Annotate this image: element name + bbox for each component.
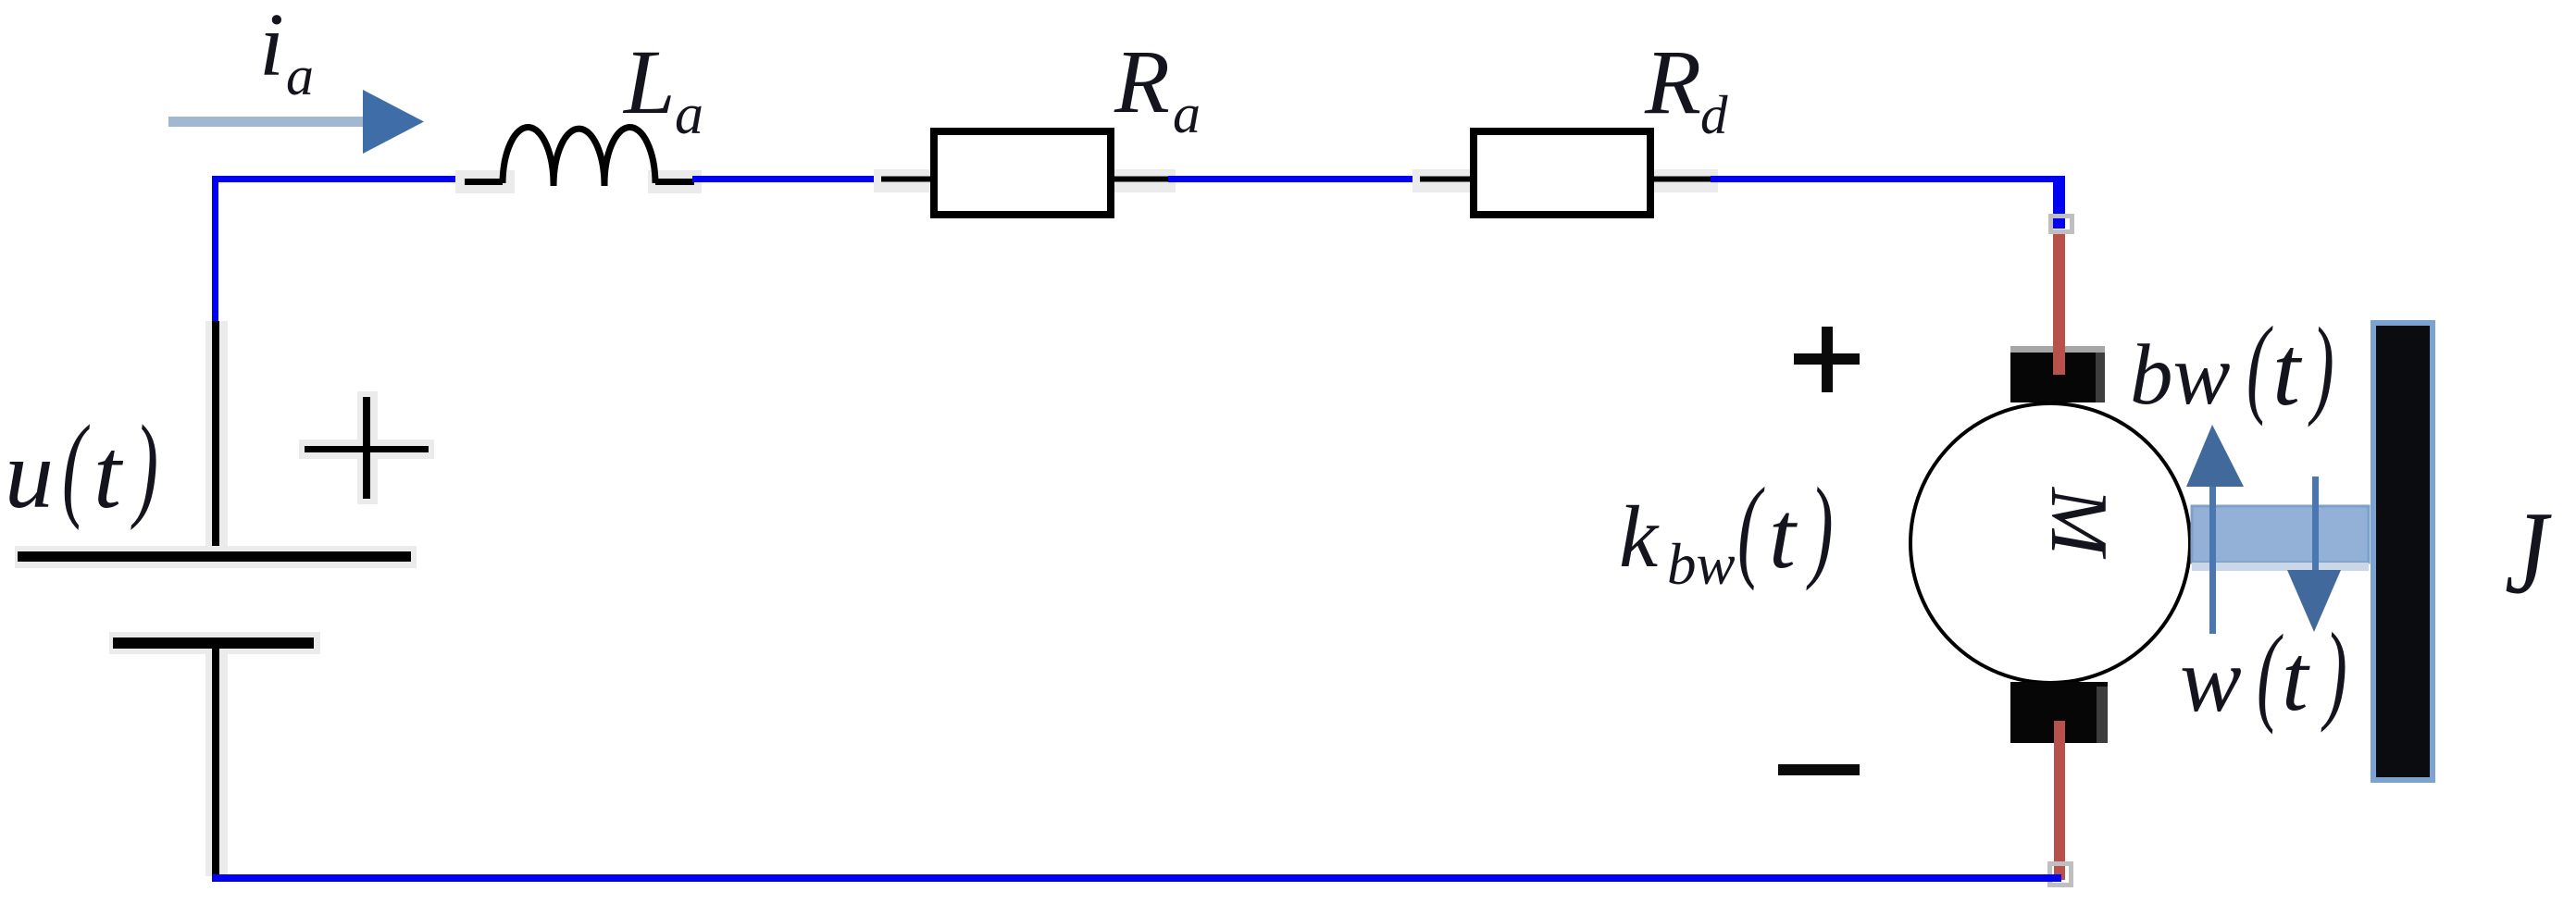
svg-text:): ) xyxy=(2308,304,2334,427)
svg-text:a: a xyxy=(675,83,703,146)
battery plus sign xyxy=(299,391,434,504)
svg-text:t: t xyxy=(1769,482,1798,588)
svg-text:i: i xyxy=(259,0,284,94)
wire segment C xyxy=(1168,176,1422,182)
svg-text:R: R xyxy=(1644,31,1701,133)
svg-text:M: M xyxy=(2034,486,2123,560)
svg-text:(: ( xyxy=(2246,303,2273,427)
wire red bottom xyxy=(2054,721,2065,880)
svg-text:t: t xyxy=(2272,316,2303,427)
wire bottom xyxy=(212,874,2061,882)
svg-text:k: k xyxy=(1619,488,1660,586)
wire left vertical xyxy=(212,176,218,321)
arrow bw up xyxy=(2186,425,2244,634)
label u(t) xyxy=(5,402,158,530)
resistor Ra xyxy=(874,131,1176,215)
svg-text:(: ( xyxy=(2257,612,2284,735)
label plus motor xyxy=(1794,327,1860,392)
svg-text:w: w xyxy=(2180,628,2242,731)
svg-text:t: t xyxy=(93,419,124,529)
svg-text:R: R xyxy=(1114,32,1170,132)
svg-text:L: L xyxy=(622,31,676,133)
battery plate long xyxy=(15,546,417,568)
wire right vertical xyxy=(2053,176,2065,229)
node connector bottom xyxy=(2050,864,2072,885)
svg-text:a: a xyxy=(286,45,314,106)
current arrow ia xyxy=(168,90,424,154)
load inertia J bar xyxy=(2373,323,2433,780)
motor terminal top xyxy=(2010,346,2105,402)
label minus motor xyxy=(1778,764,1860,775)
svg-text:bw: bw xyxy=(1667,532,1736,597)
label i_a xyxy=(259,0,314,106)
motor body M xyxy=(1910,403,2190,683)
resistor Rd xyxy=(1412,131,1718,215)
label w(t) xyxy=(2180,610,2347,735)
svg-text:d: d xyxy=(1700,84,1728,145)
svg-text:(: ( xyxy=(1737,465,1765,592)
label bw(t) xyxy=(2130,303,2334,427)
svg-text:(: ( xyxy=(62,402,91,530)
label k_bw(t) xyxy=(1619,465,1834,597)
svg-text:t: t xyxy=(2282,625,2310,731)
svg-text:bw: bw xyxy=(2130,328,2231,423)
svg-text:): ) xyxy=(131,402,158,530)
label L_a xyxy=(622,31,703,146)
shaft xyxy=(2192,506,2369,571)
arrow w down xyxy=(2287,477,2341,632)
inductor La xyxy=(455,128,702,193)
wire segment D xyxy=(1711,176,2065,182)
label R_a xyxy=(1114,32,1201,144)
battery lead lower xyxy=(205,649,228,877)
battery plate short xyxy=(109,632,320,654)
label R_d xyxy=(1644,31,1728,145)
svg-text:u: u xyxy=(5,420,54,528)
battery lead upper xyxy=(205,321,228,555)
svg-text:): ) xyxy=(2321,610,2347,733)
node connector top xyxy=(2051,217,2072,232)
motor terminal bottom xyxy=(2010,682,2108,743)
wire top-left segment xyxy=(212,176,466,182)
wire red top xyxy=(2053,230,2065,375)
wire segment B xyxy=(692,176,883,182)
svg-text:J: J xyxy=(2505,488,2552,618)
svg-text:a: a xyxy=(1173,83,1201,144)
svg-text:): ) xyxy=(1806,465,1833,592)
